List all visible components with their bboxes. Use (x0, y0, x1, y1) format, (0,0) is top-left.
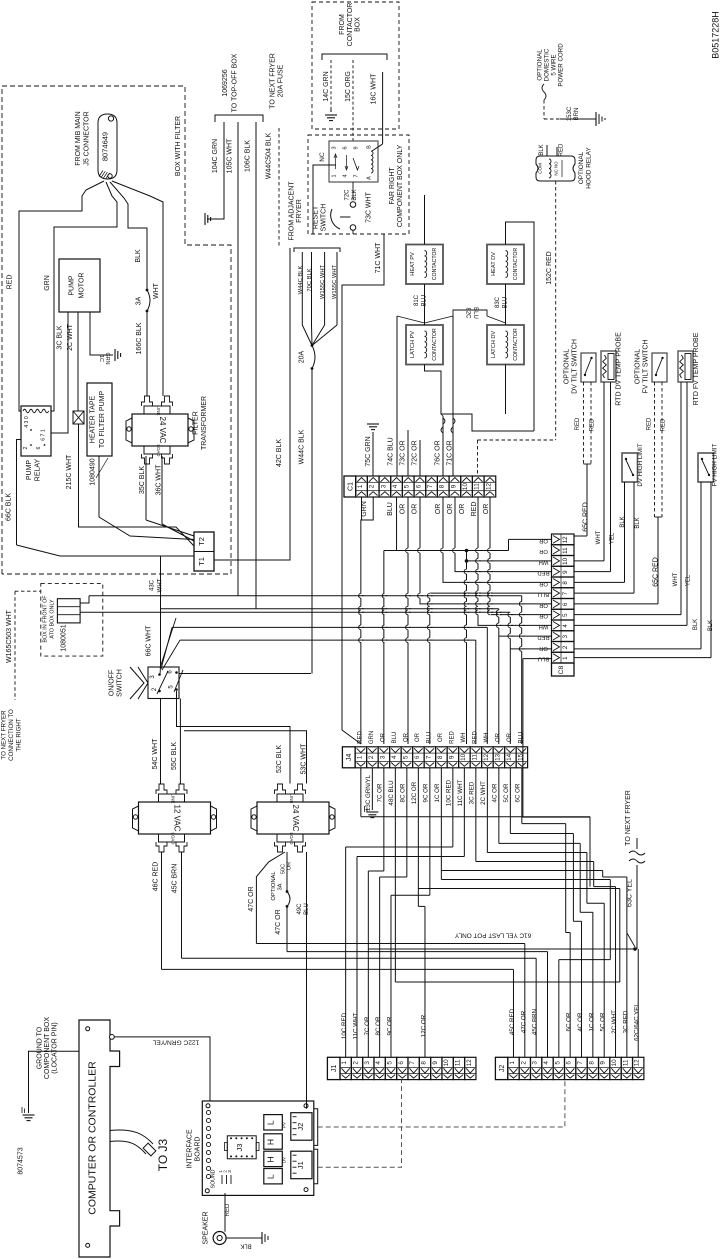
svg-text:83C: 83C (495, 296, 501, 308)
svg-text:3C BLK: 3C BLK (57, 325, 64, 349)
svg-text:3C RED: 3C RED (622, 1010, 629, 1033)
svg-text:OR: OR (539, 537, 548, 543)
svg-text:8: 8 (562, 581, 569, 585)
svg-text:RED: RED (661, 418, 667, 431)
svg-text:71C WHT: 71C WHT (375, 242, 382, 273)
svg-text:RED: RED (575, 417, 581, 430)
svg-text:LOAD: LOAD (156, 445, 161, 457)
svg-text:CONTACTOR: CONTACTOR (513, 328, 519, 361)
svg-text:15C ORG: 15C ORG (345, 71, 352, 102)
svg-text:HEAT PV: HEAT PV (410, 252, 416, 276)
svg-text:10: 10 (562, 557, 569, 564)
svg-text:WH: WH (484, 733, 490, 743)
svg-text:BOX WITH FILTER: BOX WITH FILTER (175, 116, 182, 176)
svg-text:LATCH DV: LATCH DV (491, 331, 497, 359)
svg-text:106C BLK: 106C BLK (245, 140, 252, 172)
svg-text:LOAD: LOAD (171, 833, 176, 845)
svg-text:TO NEXT FRYER: TO NEXT FRYER (1, 710, 8, 760)
svg-text:2: 2 (368, 755, 375, 759)
svg-text:BLU: BLU (422, 295, 428, 307)
svg-text:1080051: 1080051 (61, 624, 68, 651)
svg-text:10C RED: 10C RED (341, 1012, 348, 1039)
svg-text:BOARD: BOARD (195, 1137, 202, 1162)
svg-text:9: 9 (600, 1061, 607, 1065)
svg-text:10: 10 (460, 753, 467, 761)
svg-text:1: 1 (562, 656, 569, 660)
svg-text:66C WHT: 66C WHT (146, 625, 153, 656)
svg-text:47C OR: 47C OR (248, 886, 255, 911)
svg-text:9: 9 (432, 1061, 439, 1065)
svg-text:OPTIONAL: OPTIONAL (578, 151, 585, 184)
svg-text:4C OR: 4C OR (577, 1012, 584, 1031)
svg-text:1: 1 (356, 755, 363, 759)
svg-text:5C OR: 5C OR (503, 783, 510, 802)
svg-text:OR: OR (412, 504, 419, 515)
svg-text:T1: T1 (197, 557, 206, 566)
svg-text:OR: OR (415, 732, 421, 742)
svg-text:BLK: BLK (240, 1243, 251, 1249)
svg-text:L: L (266, 1120, 276, 1125)
svg-text:5: 5 (386, 1061, 393, 1065)
svg-text:COMPUTER OR CONTROLLER: COMPUTER OR CONTROLLER (87, 1061, 99, 1215)
svg-text:47C OR: 47C OR (275, 909, 282, 934)
svg-text:166C BLK: 166C BLK (136, 322, 143, 354)
svg-text:WH: WH (539, 559, 549, 565)
svg-text:J2: J2 (296, 1123, 305, 1131)
svg-text:72C: 72C (345, 189, 351, 201)
svg-text:45C RED: 45C RED (509, 1008, 516, 1035)
svg-text:46C RED: 46C RED (153, 862, 160, 892)
svg-text:RED: RED (537, 570, 549, 576)
svg-text:2C WHT: 2C WHT (611, 1010, 618, 1034)
svg-text:FRYER: FRYER (296, 199, 303, 223)
svg-text:36C WHT: 36C WHT (156, 464, 163, 495)
svg-text:35C BLK: 35C BLK (139, 466, 146, 494)
svg-text:POWER CORD: POWER CORD (558, 43, 565, 87)
svg-text:12: 12 (562, 536, 569, 543)
svg-text:GRN: GRN (369, 731, 375, 744)
svg-text:7: 7 (427, 484, 434, 488)
svg-text:OR: OR (459, 504, 466, 515)
svg-text:12: 12 (483, 753, 490, 761)
svg-text:BLK: BLK (635, 517, 641, 528)
svg-text:7C OR: 7C OR (364, 1016, 371, 1035)
svg-text:OR: OR (539, 602, 548, 608)
svg-text:7: 7 (354, 174, 360, 177)
svg-text:6: 6 (36, 446, 42, 449)
svg-text:1C OR: 1C OR (588, 1012, 595, 1031)
svg-text:2: 2 (352, 1061, 359, 1065)
svg-text:11C WHT: 11C WHT (352, 1012, 359, 1039)
svg-text:NC NO: NC NO (554, 161, 559, 176)
svg-text:6: 6 (398, 1061, 405, 1065)
svg-text:70C BLK: 70C BLK (307, 268, 313, 291)
svg-text:13: 13 (494, 753, 501, 761)
svg-text:OR: OR (539, 613, 548, 619)
svg-text:4: 4 (562, 624, 569, 628)
svg-text:GRN: GRN (104, 353, 110, 365)
svg-text:5: 5 (402, 755, 409, 759)
svg-text:OR: OR (400, 504, 407, 515)
svg-text:8C OR: 8C OR (375, 1016, 382, 1035)
svg-text:OR: OR (539, 645, 548, 651)
svg-text:10C RED: 10C RED (446, 779, 453, 806)
svg-text:9C OR: 9C OR (423, 783, 430, 802)
svg-text:TO J3: TO J3 (156, 1138, 170, 1171)
svg-text:20A: 20A (299, 350, 306, 363)
svg-text:7: 7 (425, 755, 432, 759)
svg-text:65C RED: 65C RED (583, 502, 590, 532)
svg-text:10: 10 (462, 483, 469, 491)
svg-text:OR: OR (495, 732, 501, 742)
svg-text:74C BLU: 74C BLU (388, 437, 395, 465)
svg-text:TO NEXT FRYER: TO NEXT FRYER (625, 790, 632, 846)
svg-text:OPTIONAL: OPTIONAL (635, 349, 642, 385)
svg-text:1080490: 1080490 (90, 458, 97, 485)
svg-text:BLU: BLU (387, 502, 394, 516)
svg-text:8: 8 (439, 484, 446, 488)
svg-text:11: 11 (622, 1059, 629, 1066)
svg-text:RTD DV TEMP PROBE: RTD DV TEMP PROBE (616, 332, 623, 406)
svg-text:BLK: BLK (620, 516, 626, 527)
svg-text:FROM: FROM (339, 14, 346, 35)
svg-text:11C WHT: 11C WHT (457, 779, 464, 806)
svg-text:BLU: BLU (304, 903, 310, 915)
svg-text:(LOCATOR PIN): (LOCATOR PIN) (52, 1022, 59, 1073)
svg-text:3: 3 (379, 755, 386, 759)
svg-text:W155C WHT: W155C WHT (332, 264, 338, 299)
svg-text:THE RIGHT: THE RIGHT (16, 718, 23, 752)
svg-text:48C BLU: 48C BLU (388, 780, 395, 805)
svg-text:8074573: 8074573 (18, 1147, 25, 1174)
svg-text:RESET: RESET (313, 205, 320, 229)
svg-text:BLU: BLU (426, 732, 432, 744)
svg-text:4: 4 (543, 1061, 550, 1065)
svg-text:CONTACTOR: CONTACTOR (347, 3, 354, 47)
svg-text:152C RED: 152C RED (546, 251, 553, 284)
svg-text:5: 5 (404, 484, 411, 488)
svg-text:1069256: 1069256 (222, 69, 229, 96)
svg-text:63C YEL: 63C YEL (627, 879, 634, 907)
svg-text:11: 11 (454, 1059, 461, 1066)
svg-text:4 3 0: 4 3 0 (24, 416, 30, 428)
svg-text:YEL: YEL (610, 532, 616, 544)
svg-text:8: 8 (420, 1061, 427, 1065)
svg-text:5: 5 (562, 613, 569, 617)
svg-text:C8: C8 (558, 665, 565, 674)
svg-text:6: 6 (562, 602, 569, 606)
svg-text:47C OR: 47C OR (520, 1010, 527, 1033)
svg-text:B: B (367, 145, 373, 149)
svg-text:55C BLK: 55C BLK (171, 742, 178, 770)
svg-text:3A: 3A (136, 296, 143, 305)
svg-text:2: 2 (369, 484, 376, 488)
svg-text:RTD FV TEMP PROBE: RTD FV TEMP PROBE (693, 332, 700, 405)
svg-text:BOX: BOX (355, 17, 362, 32)
svg-text:215C WHT: 215C WHT (66, 454, 73, 489)
svg-text:9: 9 (448, 755, 455, 759)
svg-text:RED: RED (590, 418, 596, 431)
svg-text:12C OR: 12C OR (411, 781, 418, 804)
svg-text:BLK: BLK (708, 620, 714, 631)
svg-text:PUMP: PUMP (26, 460, 33, 481)
svg-text:OR: OR (447, 504, 454, 515)
svg-text:BLU: BLU (392, 732, 398, 744)
svg-text:DV TILT SWITCH: DV TILT SWITCH (572, 339, 579, 394)
svg-text:BLK: BLK (693, 619, 699, 630)
svg-text:PV: PV (282, 1122, 287, 1128)
svg-text:65C RED: 65C RED (653, 557, 660, 587)
svg-text:9: 9 (562, 570, 569, 574)
svg-text:HEATER TAPE: HEATER TAPE (90, 395, 97, 443)
svg-text:82C: 82C (465, 307, 471, 319)
svg-text:16C WHT: 16C WHT (371, 73, 378, 104)
svg-text:FAR RIGHT: FAR RIGHT (389, 167, 396, 205)
svg-text:FV TILT SWITCH: FV TILT SWITCH (643, 339, 650, 393)
svg-text:6: 6 (566, 1061, 573, 1065)
svg-text:1: 1 (341, 1061, 348, 1065)
svg-text:3: 3 (532, 1061, 539, 1065)
svg-text:6: 6 (415, 484, 422, 488)
svg-text:FV HIGH LIMIT: FV HIGH LIMIT (712, 443, 719, 486)
svg-text:6C OR: 6C OR (566, 1012, 573, 1031)
svg-text:OPTIONAL: OPTIONAL (537, 49, 544, 81)
svg-text:1: 1 (332, 174, 338, 177)
svg-text:3C RED: 3C RED (469, 781, 476, 804)
svg-text:SWITCH: SWITCH (117, 669, 124, 697)
svg-text:7: 7 (409, 1061, 416, 1065)
svg-text:INTERFACE: INTERFACE (187, 1129, 194, 1169)
svg-text:RELAY: RELAY (35, 458, 42, 481)
svg-text:W165C503 WHT: W165C503 WHT (6, 609, 13, 663)
svg-text:9: 9 (450, 484, 457, 488)
svg-text:RED: RED (449, 731, 455, 744)
svg-text:3A: 3A (278, 883, 284, 890)
svg-text:J1: J1 (331, 1065, 338, 1073)
svg-text:10: 10 (443, 1059, 450, 1067)
svg-text:DOMESTIC: DOMESTIC (544, 48, 551, 81)
svg-text:CONTACTOR: CONTACTOR (513, 248, 519, 281)
svg-text:4: 4 (375, 1061, 382, 1065)
svg-text:2C WHT: 2C WHT (480, 781, 487, 805)
svg-text:RED: RED (225, 1203, 231, 1216)
svg-text:T2: T2 (197, 537, 206, 546)
svg-text:RED: RED (559, 143, 565, 156)
svg-text:5: 5 (554, 1061, 561, 1065)
svg-text:RED: RED (7, 275, 14, 290)
svg-text:11: 11 (474, 483, 481, 490)
svg-text:12: 12 (466, 1059, 473, 1067)
svg-text:PUMP: PUMP (69, 275, 76, 296)
svg-text:4: 4 (343, 174, 349, 177)
svg-text:9: 9 (354, 146, 360, 149)
svg-text:8074649: 8074649 (101, 132, 110, 161)
svg-text:OPTIONAL: OPTIONAL (271, 871, 277, 901)
svg-text:RED: RED (471, 502, 478, 517)
svg-text:11: 11 (471, 754, 478, 761)
svg-text:B0517228H: B0517228H (711, 11, 721, 59)
svg-text:TO FILTER PUMP: TO FILTER PUMP (99, 391, 106, 449)
svg-text:2: 2 (562, 645, 569, 649)
svg-text:CONNECTION TO: CONNECTION TO (8, 709, 15, 761)
svg-text:52C BLK: 52C BLK (276, 745, 283, 773)
svg-text:6: 6 (343, 146, 349, 149)
svg-text:J1: J1 (296, 1161, 305, 1169)
svg-text:SWITCH: SWITCH (321, 204, 328, 232)
svg-text:45C BRN: 45C BRN (172, 864, 179, 894)
svg-text:L: L (266, 1174, 276, 1179)
svg-text:6C OR: 6C OR (515, 783, 522, 802)
svg-text:OR: OR (438, 732, 444, 742)
svg-text:RED: RED (647, 417, 653, 430)
svg-text:WHT: WHT (153, 282, 160, 299)
svg-text:61C YEL LAST POT ONLY: 61C YEL LAST POT ONLY (454, 932, 531, 939)
svg-text:3: 3 (227, 1170, 232, 1173)
svg-text:DV: DV (282, 1157, 287, 1163)
svg-text:62C/64C YEL: 62C/64C YEL (634, 1003, 641, 1041)
svg-text:15: 15 (517, 753, 524, 761)
svg-text:TO TOP-OFF BOX: TO TOP-OFF BOX (232, 53, 239, 112)
svg-text:10: 10 (611, 1059, 618, 1067)
svg-text:GRN: GRN (361, 501, 368, 517)
svg-text:COMPONENT BOX: COMPONENT BOX (44, 1017, 51, 1079)
svg-text:73C OR: 73C OR (400, 440, 407, 465)
svg-text:4: 4 (391, 755, 398, 759)
svg-text:1: 1 (357, 484, 364, 488)
svg-text:7C OR: 7C OR (377, 783, 384, 802)
svg-text:W44C BLK: W44C BLK (299, 429, 306, 464)
svg-text:12: 12 (634, 1059, 641, 1067)
svg-text:7: 7 (562, 591, 569, 595)
svg-text:CONTACTOR: CONTACTOR (432, 328, 438, 361)
svg-text:OR: OR (483, 504, 490, 515)
svg-text:24 VAC: 24 VAC (291, 805, 300, 832)
svg-text:7: 7 (577, 1061, 584, 1065)
svg-text:BLU: BLU (538, 591, 549, 597)
svg-text:W155C WHT: W155C WHT (320, 264, 326, 299)
svg-text:2: 2 (23, 446, 29, 449)
svg-text:SOUND: SOUND (211, 1169, 217, 1188)
svg-text:COMPONENT BOX ONLY: COMPONENT BOX ONLY (397, 144, 404, 227)
svg-text:J5 CONNECTOR: J5 CONNECTOR (84, 111, 91, 165)
svg-text:54C WHT: 54C WHT (152, 738, 159, 769)
svg-text:MOTOR: MOTOR (79, 273, 86, 299)
svg-text:73C WHT: 73C WHT (366, 191, 373, 222)
svg-text:20A FUSE: 20A FUSE (278, 64, 285, 97)
svg-text:1C: 1C (98, 355, 104, 362)
svg-text:HEAT DV: HEAT DV (491, 252, 497, 276)
svg-text:2C WHT: 2C WHT (67, 323, 74, 351)
svg-text:FILTER: FILTER (193, 411, 200, 435)
svg-text:66C BLK: 66C BLK (6, 493, 13, 521)
svg-text:OR: OR (507, 732, 513, 742)
svg-text:14: 14 (506, 753, 513, 761)
svg-text:49C: 49C (297, 903, 303, 915)
svg-text:J3: J3 (235, 1144, 244, 1152)
svg-text:BRN: BRN (574, 108, 580, 121)
svg-text:4: 4 (392, 484, 399, 488)
svg-text:6: 6 (414, 755, 421, 759)
svg-text:12: 12 (485, 483, 492, 491)
svg-text:LOAD: LOAD (289, 833, 294, 845)
svg-text:OR: OR (539, 580, 548, 586)
svg-text:RED: RED (472, 731, 478, 744)
svg-text:12 VAC: 12 VAC (173, 805, 182, 832)
svg-text:OR: OR (380, 732, 386, 742)
svg-text:9C OR: 9C OR (386, 1016, 393, 1035)
svg-text:RED: RED (357, 731, 363, 744)
svg-text:53C WHT: 53C WHT (301, 743, 308, 774)
svg-text:CONTACTOR: CONTACTOR (432, 248, 438, 281)
svg-text:BOX IN FRONT OF: BOX IN FRONT OF (43, 595, 49, 643)
svg-text:W44C504 BLK: W44C504 BLK (266, 133, 273, 180)
svg-text:42C BLK: 42C BLK (276, 439, 283, 467)
svg-text:ON/OFF: ON/OFF (109, 670, 116, 696)
svg-text:YEL: YEL (686, 574, 692, 586)
svg-text:NC: NC (319, 152, 326, 162)
svg-text:BLK: BLK (135, 249, 142, 263)
svg-text:72C OR: 72C OR (412, 440, 419, 465)
svg-text:105C WHT: 105C WHT (227, 138, 234, 173)
svg-text:76C OR: 76C OR (435, 440, 442, 465)
svg-text:43C: 43C (150, 579, 156, 591)
svg-text:A: A (367, 176, 373, 180)
svg-text:71C OR: 71C OR (447, 440, 454, 465)
svg-text:OR: OR (287, 862, 293, 870)
svg-text:12C OR: 12C OR (420, 1014, 427, 1037)
svg-text:W44C BLK: W44C BLK (298, 266, 304, 295)
svg-text:GROUND TO: GROUND TO (37, 1026, 44, 1069)
svg-text:H: H (266, 1139, 276, 1145)
svg-text:BLU: BLU (472, 307, 478, 319)
svg-text:TRANSFORMER: TRANSFORMER (201, 396, 208, 450)
svg-text:1C OR: 1C OR (434, 783, 441, 802)
svg-text:3: 3 (364, 1061, 371, 1065)
svg-text:24 VAC: 24 VAC (158, 417, 167, 444)
svg-text:11: 11 (562, 547, 569, 554)
svg-text:6 7 1: 6 7 1 (41, 429, 47, 441)
svg-text:FROM ADJACENT: FROM ADJACENT (289, 181, 296, 241)
svg-text:J4: J4 (346, 754, 353, 762)
svg-text:13C GRN/YL: 13C GRN/YL (365, 774, 372, 811)
svg-text:122C GRN/YEL: 122C GRN/YEL (152, 1039, 199, 1046)
svg-text:8C OR: 8C OR (400, 783, 407, 802)
svg-text:104C GRN: 104C GRN (212, 139, 219, 173)
svg-text:COM: COM (538, 163, 543, 174)
svg-text:75C GRN: 75C GRN (365, 436, 372, 466)
svg-text:LATCH PV: LATCH PV (410, 331, 416, 358)
svg-text:45C BRN: 45C BRN (532, 1009, 539, 1035)
svg-text:OR: OR (435, 504, 442, 515)
svg-text:8: 8 (588, 1061, 595, 1065)
svg-text:C1: C1 (347, 482, 354, 491)
svg-text:OPTIONAL: OPTIONAL (564, 349, 571, 385)
svg-text:3: 3 (332, 146, 338, 149)
svg-text:RED: RED (537, 634, 549, 640)
svg-text:SPEAKER: SPEAKER (203, 1211, 210, 1244)
svg-text:4C OR: 4C OR (492, 783, 499, 802)
svg-text:WH: WH (461, 733, 467, 743)
svg-text:FROM MIB MAIN: FROM MIB MAIN (75, 111, 82, 165)
svg-text:ATO BOX ONLY: ATO BOX ONLY (50, 599, 56, 639)
svg-text:HOOD RELAY: HOOD RELAY (586, 147, 593, 189)
svg-text:BLK: BLK (539, 144, 545, 155)
svg-text:8: 8 (437, 755, 444, 759)
svg-text:14C GRN: 14C GRN (323, 71, 330, 101)
svg-text:2: 2 (520, 1061, 527, 1065)
svg-text:DV HIGH LIMIT: DV HIGH LIMIT (637, 443, 644, 487)
svg-text:OR: OR (539, 548, 548, 554)
